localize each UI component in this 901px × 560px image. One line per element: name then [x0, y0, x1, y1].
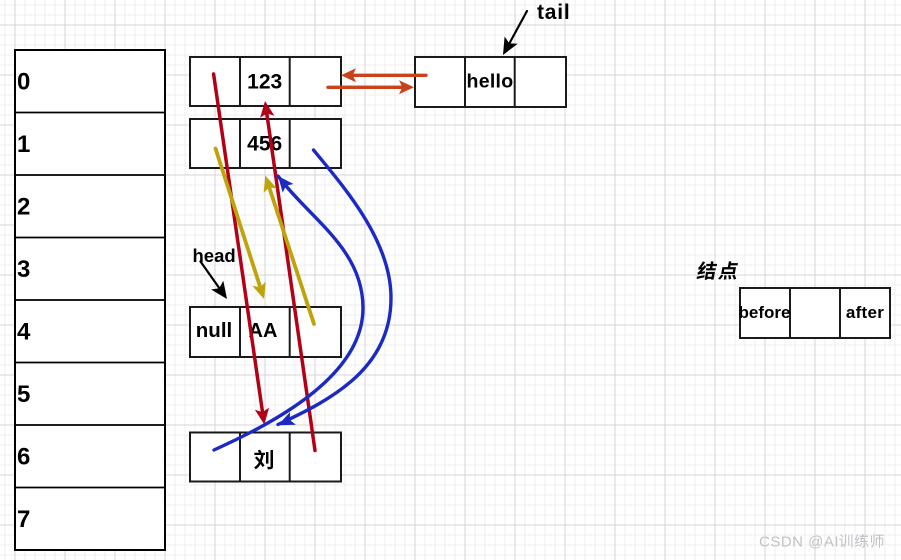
node box hello — [415, 57, 566, 107]
node box 刘 — [190, 433, 341, 482]
svg-text:before: before — [739, 303, 791, 322]
svg-text:CSDN @AI: CSDN @AI — [759, 534, 839, 551]
node box null/AA — [190, 307, 341, 357]
svg-text:4: 4 — [17, 319, 31, 346]
svg-text:7: 7 — [17, 506, 30, 533]
node box 123 — [190, 57, 341, 106]
dark red arrow: 123 node cell1 down to 刘 node — [214, 74, 270, 425]
svg-text:123: 123 — [247, 71, 282, 94]
svg-text:456: 456 — [247, 133, 282, 156]
node box before/after — [739, 288, 890, 338]
svg-text:head: head — [193, 245, 236, 266]
orange arrow: hello node to 123 node (left) — [341, 68, 426, 82]
svg-text:null: null — [196, 319, 232, 342]
svg-text:1: 1 — [17, 131, 30, 158]
dark red arrow: 刘 node up to 123 cell — [260, 101, 315, 451]
orange arrow: 123 node to hello node (right) — [328, 80, 414, 94]
array table (rows 0-7) — [15, 50, 165, 550]
svg-text:2: 2 — [17, 194, 30, 221]
dark yellow arrow: AA cell3 up to 456 node — [264, 176, 314, 325]
blue curved arrow: 456 next cell to 刘 node — [278, 150, 391, 425]
svg-text:tail: tail — [537, 1, 571, 24]
node box 456 — [190, 119, 341, 168]
svg-text:5: 5 — [17, 381, 30, 408]
svg-text:6: 6 — [17, 444, 30, 471]
svg-text:3: 3 — [17, 256, 30, 283]
blue curved arrow: 刘 prev cell to 456 node — [214, 176, 363, 450]
head pointer arrow — [200, 261, 227, 299]
dark yellow arrow: 456 cell1 down to null/AA node — [216, 149, 266, 300]
CSDN watermark — [759, 534, 884, 551]
svg-text:0: 0 — [17, 69, 30, 96]
svg-text:hello: hello — [466, 71, 513, 93]
label 结点 (node) bold italic — [696, 261, 739, 279]
tail pointer arrow — [503, 11, 527, 55]
svg-text:after: after — [846, 303, 884, 322]
